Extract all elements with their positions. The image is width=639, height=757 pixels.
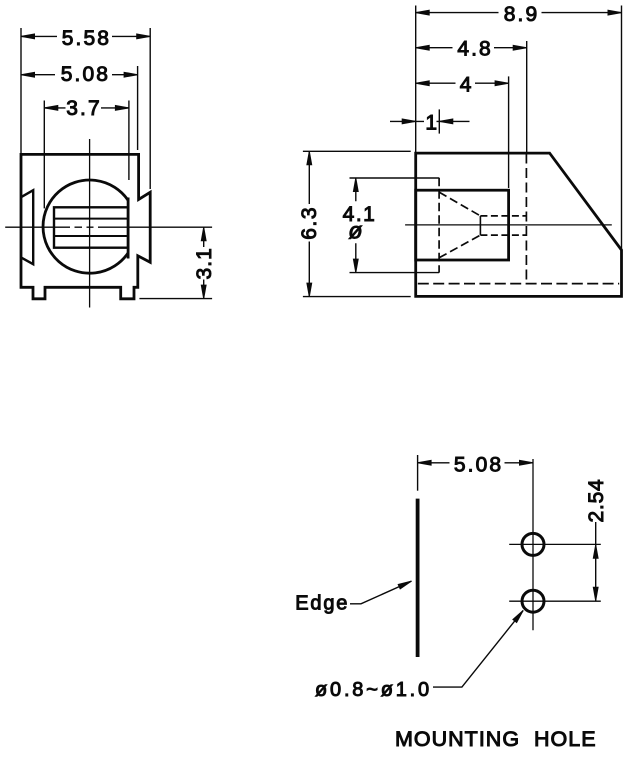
svg-text:4: 4 — [460, 74, 474, 97]
dimension 3.7 — [44, 101, 129, 209]
svg-text:3.1: 3.1 — [193, 247, 216, 280]
front view: body outline — [21, 154, 150, 298]
dimension phi 4.1 — [350, 178, 440, 273]
dimension 4.8 — [416, 41, 527, 152]
svg-text:3.7: 3.7 — [66, 97, 102, 120]
svg-text:1: 1 — [425, 112, 439, 135]
side view: hidden base line (dashed horizontal) — [418, 283, 619, 285]
hole size leader line — [433, 610, 523, 687]
svg-text:5.08: 5.08 — [454, 454, 503, 477]
svg-text:Edge: Edge — [295, 592, 349, 614]
front view: horizontal centerline — [5, 226, 212, 228]
svg-text:MOUNTING HOLE: MOUNTING HOLE — [395, 727, 597, 751]
side view: window frame rectangle — [416, 190, 509, 260]
side view: chip cavity lines (dashed) — [480, 216, 526, 235]
dimension 5.08 — [21, 66, 138, 150]
hole H2 horizontal centerline — [509, 600, 601, 602]
svg-text:2.54: 2.54 — [585, 478, 608, 522]
front view: lens circle with flat right side — [43, 180, 128, 273]
Edge leader line — [350, 581, 412, 604]
mounting hole H1 — [522, 533, 544, 555]
mounting hole H2 — [522, 590, 544, 612]
dimension 3.1 — [139, 227, 212, 298]
front view: vertical centerline — [89, 139, 91, 308]
svg-text:5.08: 5.08 — [61, 63, 110, 86]
mounting view: dimension 5.08 — [418, 455, 533, 491]
dimension 6.3 — [303, 151, 411, 296]
side view: body outline — [416, 153, 622, 296]
mounting view: PCB edge thick line — [416, 499, 420, 657]
front view: left side tab — [21, 190, 33, 264]
front view: sensor window rectangle — [54, 207, 128, 247]
side view: hidden inner wall (dashed vertical) — [525, 154, 527, 284]
dimension 5.58 — [21, 28, 150, 189]
svg-text:8.9: 8.9 — [504, 3, 540, 26]
mounting view: holes vertical centerline — [532, 459, 534, 630]
svg-text:ø0.8~ø1.0: ø0.8~ø1.0 — [315, 679, 432, 701]
svg-text:6.3: 6.3 — [298, 206, 321, 240]
side view: reflector cone (dashed) — [439, 192, 480, 258]
side view: cone tip vertical — [479, 216, 481, 235]
svg-text:4.8: 4.8 — [457, 37, 493, 60]
svg-text:ø: ø — [348, 218, 362, 244]
dimension 1 — [390, 109, 470, 133]
side view: horizontal centerline — [405, 224, 612, 226]
hole H1 horizontal centerline — [509, 543, 601, 545]
dimension 4 — [416, 76, 509, 188]
front view: window inner lines — [54, 219, 128, 236]
dimension 8.9 — [416, 6, 622, 250]
side view: hidden lens edge (dashed) — [438, 178, 440, 273]
svg-text:5.58: 5.58 — [62, 27, 111, 50]
dimension 2.54 — [595, 522, 597, 601]
